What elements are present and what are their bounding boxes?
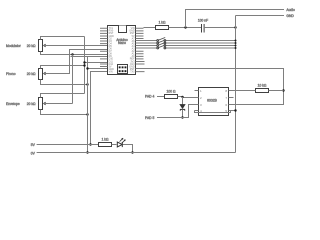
wire audio riser [186, 10, 285, 28]
svg-text:20 kΩ: 20 kΩ [27, 102, 36, 106]
svg-text:1 kΩ: 1 kΩ [159, 21, 166, 25]
svg-text:10 kΩ: 10 kΩ [258, 84, 267, 88]
amp pin stubs [195, 91, 234, 111]
resistor R7 1 kΩ [99, 143, 112, 147]
wire phono wiper riser [43, 50, 108, 74]
svg-text:Modulator: Modulator [6, 44, 22, 48]
arduino U1 body [108, 26, 136, 75]
node C tap [86, 67, 88, 69]
arduino right pin labels [129, 27, 135, 73]
arduino icsp header [118, 65, 128, 74]
node led on 0V [131, 151, 133, 153]
svg-text:100 nF: 100 nF [198, 18, 208, 22]
resistor R5 10 kΩ feedback [256, 89, 269, 93]
wire 5V rail [37, 144, 99, 146]
svg-text:Nano: Nano [118, 41, 126, 45]
wire capacitor to gnd bus [204, 27, 235, 29]
node S4 on G [235, 47, 237, 49]
resistor R6 100 Ω [165, 95, 178, 99]
svg-text:TX0: TX0 [130, 71, 135, 74]
wire feedback resistor to loop [269, 90, 284, 92]
node C on 0V rail [86, 151, 88, 153]
wire G bus vertical [235, 16, 237, 153]
node diode on pad5 wire [181, 116, 183, 118]
potentiometer R2 Phono 20 kΩ [39, 69, 47, 80]
arduino usb notch [119, 26, 127, 33]
wire B tap to arduino [85, 62, 108, 64]
wire pad4 to resistor R6 [157, 96, 165, 98]
wire phono top [41, 66, 85, 69]
switch S1 [136, 38, 236, 42]
node audio tap [184, 26, 186, 28]
node B tap [83, 61, 85, 63]
wire bus A vertical [72, 55, 74, 104]
LED D2 [117, 138, 125, 147]
svg-text:Audio: Audio [286, 8, 295, 12]
switch S2 [136, 40, 236, 44]
wire modulator bottom to arduino [41, 52, 108, 55]
node A top [71, 53, 73, 55]
node phono bottom on C [86, 83, 88, 85]
op-amp U2 8002 body [199, 88, 229, 116]
node S1 on G [235, 40, 237, 42]
wire resistor R6 to amp pin2 [178, 97, 199, 98]
switch S4 [136, 45, 236, 49]
svg-text:GND: GND [286, 14, 294, 18]
node S2 on G [235, 42, 237, 44]
arduino left pin stubs [100, 28, 108, 66]
node diode top [181, 96, 183, 98]
svg-text:8002B: 8002B [207, 99, 218, 103]
diode D1 [180, 105, 185, 111]
wire arduino pin6 loop [136, 69, 284, 105]
wire 0V rail [37, 152, 236, 154]
switch S3 [136, 43, 236, 47]
wire C tap to arduino [88, 68, 108, 70]
wire bus B vertical [84, 37, 86, 94]
arduino right pin stubs [136, 28, 145, 71]
resistor R4 1 kΩ [156, 26, 169, 30]
wire bus C vertical [87, 57, 89, 153]
svg-text:VIN: VIN [109, 71, 113, 74]
node envelope bottom on C [86, 113, 88, 115]
svg-text:20 kΩ: 20 kΩ [27, 72, 36, 76]
node pin5 on G bus [234, 109, 236, 111]
potentiometer R3 Envelope 20 kΩ [39, 98, 47, 110]
wire led to 0V [123, 145, 133, 153]
node S3 on G [235, 45, 237, 47]
wire arduino pin to resistor R4 [144, 27, 156, 29]
capacitor C1 100 nF [202, 24, 205, 33]
amp pin numbers [200, 89, 202, 113]
wire resistor R7 to led [112, 144, 117, 146]
wire envelope top to bus B bottom [41, 94, 85, 98]
wire resistor R4 to capacitor [169, 27, 202, 29]
arduino left pin labels [109, 27, 115, 73]
svg-text:PAD 4: PAD 4 [145, 95, 154, 99]
svg-text:100 Ω: 100 Ω [167, 90, 176, 94]
wire modulator top to bus B [41, 37, 85, 40]
wire gnd pin to bus C [71, 56, 108, 58]
node phono top on B [83, 64, 85, 66]
wire phono bottom to bus C [41, 80, 88, 85]
wire diode top [182, 97, 184, 106]
wire envelope bottom to bus C [41, 110, 88, 115]
wire diode bottom [182, 110, 184, 118]
wire amp pin8 to feedback resistor [229, 90, 256, 92]
wire pad5 to amp pin3 [157, 105, 199, 118]
node cap on G bus [234, 26, 236, 28]
svg-text:Envelope: Envelope [6, 102, 20, 106]
svg-text:20 kΩ: 20 kΩ [27, 44, 36, 48]
svg-text:PAD 5: PAD 5 [145, 116, 154, 120]
wire 5V pin to bus D [91, 72, 108, 145]
node feedback on loop [282, 89, 284, 91]
svg-text:Phono: Phono [6, 72, 16, 76]
node D on 5V rail [89, 143, 91, 145]
potentiometer R1 Modulator 20 kΩ [39, 40, 47, 52]
svg-text:1 kΩ: 1 kΩ [102, 138, 109, 142]
wire envelope wiper from bus A [43, 103, 73, 105]
wire GND stub top [236, 15, 285, 17]
wire amp pin4 under body to pin5 [195, 111, 236, 113]
wire modulator wiper to arduino [43, 45, 108, 47]
